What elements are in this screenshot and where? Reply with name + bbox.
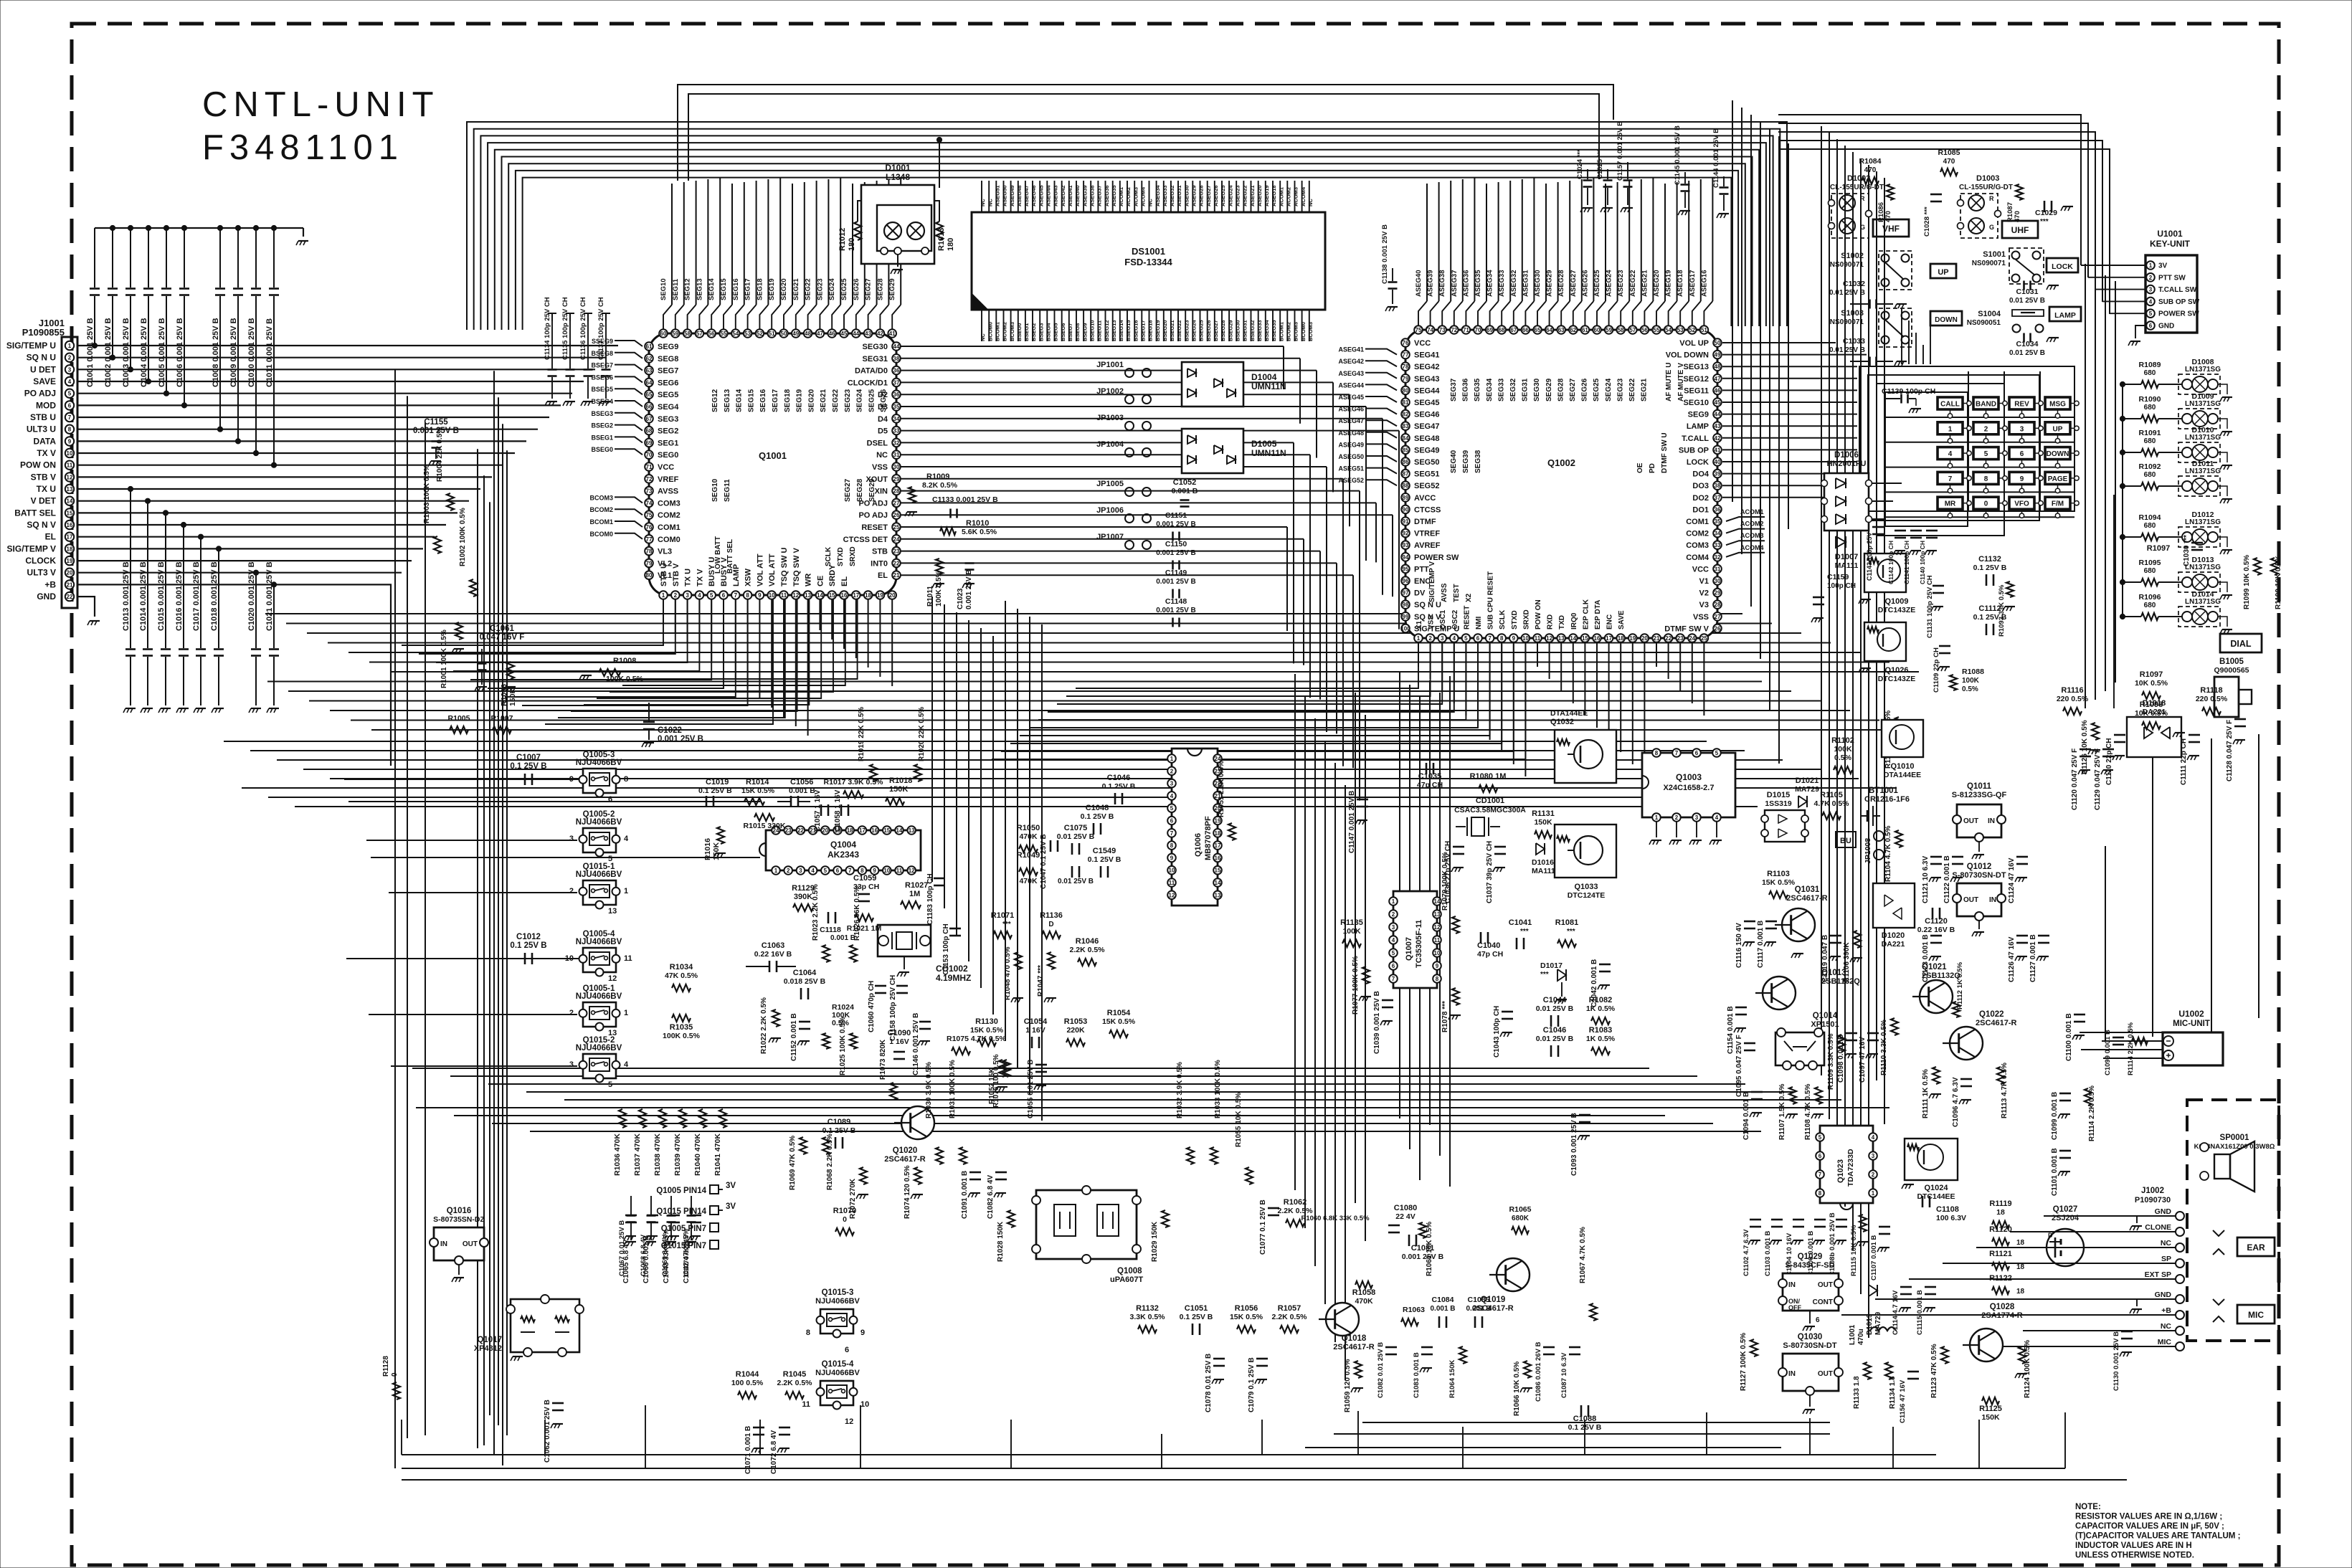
svg-text:BCOM0: BCOM0 bbox=[589, 531, 613, 538]
svg-text:S1004: S1004 bbox=[1978, 310, 2001, 318]
svg-text:1M: 1M bbox=[909, 890, 920, 898]
svg-text:C1069 6.8 4V: C1069 6.8 4V bbox=[661, 1234, 669, 1276]
svg-text:WR: WR bbox=[805, 574, 813, 586]
svg-text:D1006: D1006 bbox=[1834, 451, 1859, 460]
svg-text:C1120 0.047 25V F: C1120 0.047 25V F bbox=[2071, 749, 2079, 810]
capacitor C1106 0.001 B bbox=[1814, 1219, 1826, 1221]
svg-text:28: 28 bbox=[1715, 602, 1721, 608]
Q1002 pin 46 SEG11 bbox=[1713, 386, 1722, 395]
Q1007 pin 9 bbox=[1433, 961, 1441, 970]
svg-text:C1138 0.001 25V B: C1138 0.001 25V B bbox=[1381, 224, 1389, 284]
svg-text:19: 19 bbox=[1215, 818, 1221, 825]
svg-text:Q1009: Q1009 bbox=[1884, 597, 1908, 606]
capacitor C1096 4.7 6.3V bbox=[1960, 1078, 1972, 1080]
svg-text:C1101 0.001 B: C1101 0.001 B bbox=[2051, 1148, 2059, 1196]
svg-text:62: 62 bbox=[646, 356, 653, 362]
wire bbox=[1454, 301, 1463, 326]
svg-text:61: 61 bbox=[646, 343, 653, 350]
svg-text:100K: 100K bbox=[1962, 677, 1980, 685]
capacitor C1010 0.001 25V B bbox=[255, 228, 257, 288]
Q1001 pin 45 bbox=[840, 329, 848, 338]
svg-text:BSEG28: BSEG28 bbox=[1220, 320, 1226, 341]
svg-text:15: 15 bbox=[1215, 868, 1221, 874]
svg-text:NJU4066BV: NJU4066BV bbox=[576, 992, 622, 1001]
svg-text:COM2: COM2 bbox=[1686, 530, 1709, 538]
svg-text:BSEG6: BSEG6 bbox=[1060, 323, 1066, 341]
Q1001 pin XIN bbox=[892, 487, 901, 495]
Q1003 pin 5 bbox=[1712, 749, 1721, 757]
Q1001 pin 42 bbox=[876, 329, 885, 338]
svg-text:R1089: R1089 bbox=[2139, 361, 2161, 369]
svg-text:PAGE: PAGE bbox=[2048, 475, 2068, 483]
svg-text:C1149: C1149 bbox=[1165, 569, 1187, 577]
svg-text:79: 79 bbox=[1403, 376, 1409, 382]
svg-text:BSEG10: BSEG10 bbox=[1089, 320, 1096, 341]
svg-text:R1022 2.2K 0.5%: R1022 2.2K 0.5% bbox=[760, 997, 768, 1054]
svg-text:ACOM1: ACOM1 bbox=[1278, 187, 1284, 206]
caps C1067-C1070 column bbox=[625, 1215, 637, 1217]
svg-text:9: 9 bbox=[758, 592, 762, 599]
capacitor C1107 0.001 B bbox=[1879, 1226, 1890, 1228]
svg-text:C1035: C1035 bbox=[1418, 772, 1441, 781]
svg-text:LN1371SG: LN1371SG bbox=[2185, 518, 2221, 526]
svg-text:ASEG36: ASEG36 bbox=[1462, 270, 1470, 298]
svg-text:ASEG28: ASEG28 bbox=[1557, 270, 1565, 298]
svg-text:C1061: C1061 bbox=[490, 624, 514, 633]
svg-text:C1062 0.001 25V B: C1062 0.001 25V B bbox=[544, 1400, 551, 1463]
svg-text:R1099 10K 0.5%: R1099 10K 0.5% bbox=[2243, 555, 2251, 609]
capacitor C1015 0.001 25V B bbox=[165, 513, 166, 648]
svg-text:1: 1 bbox=[1948, 425, 1953, 433]
svg-text:0.001 25V B: 0.001 25V B bbox=[413, 427, 459, 435]
Q1002 pin 2 bbox=[1426, 634, 1435, 642]
svg-text:R1067 4.7K 0.5%: R1067 4.7K 0.5% bbox=[1579, 1227, 1587, 1283]
wire bbox=[1692, 301, 1701, 326]
svg-text:TSQ SW V: TSQ SW V bbox=[792, 548, 801, 586]
svg-text:C1148: C1148 bbox=[1165, 597, 1187, 606]
Q1006 pin 21 bbox=[1213, 792, 1222, 800]
svg-text:36: 36 bbox=[893, 391, 900, 398]
svg-text:AF MUTE U: AF MUTE U bbox=[1665, 363, 1673, 401]
U1001 pin 5 POWER SW bbox=[2146, 309, 2155, 318]
svg-text:STB V: STB V bbox=[31, 472, 56, 482]
svg-text:C1085: C1085 bbox=[1468, 1296, 1490, 1304]
svg-text:S-80735SN-DZ: S-80735SN-DZ bbox=[433, 1215, 485, 1224]
Q1023 pin 2 bbox=[1869, 1170, 1877, 1179]
svg-text:LN1371SG: LN1371SG bbox=[2185, 467, 2221, 475]
Q1007 pin 11 bbox=[1433, 936, 1441, 944]
J1001 pin 6 MOD bbox=[65, 401, 74, 409]
svg-text:SEG9: SEG9 bbox=[1688, 411, 1709, 419]
svg-text:150K: 150K bbox=[712, 842, 721, 860]
svg-text:COM1: COM1 bbox=[1686, 518, 1709, 526]
svg-text:8: 8 bbox=[806, 1329, 810, 1337]
svg-text:2: 2 bbox=[1872, 1172, 1875, 1178]
Q1002 pin 3 bbox=[1438, 634, 1446, 642]
svg-text:SCLK: SCLK bbox=[825, 546, 833, 566]
svg-text:15K 0.5%: 15K 0.5% bbox=[1102, 1017, 1136, 1026]
svg-text:15: 15 bbox=[67, 510, 73, 516]
svg-text:ASEG27: ASEG27 bbox=[1205, 185, 1212, 206]
resistor R1008 100K 0.5% bbox=[599, 669, 620, 676]
svg-text:20: 20 bbox=[1641, 635, 1648, 642]
svg-text:150K: 150K bbox=[1534, 818, 1552, 827]
svg-text:ASEG29: ASEG29 bbox=[1191, 185, 1198, 206]
Q1002 pin 50 VOL UP bbox=[1713, 338, 1722, 347]
svg-text:ASEG51: ASEG51 bbox=[1338, 465, 1364, 472]
svg-text:VSS: VSS bbox=[1428, 615, 1436, 629]
Q1002 pin 40 LOCK bbox=[1713, 457, 1722, 466]
svg-text:C1159: C1159 bbox=[1827, 573, 1849, 581]
svg-text:BCOM1: BCOM1 bbox=[589, 518, 613, 526]
resistor R1067 4.7K 0.5% bbox=[1590, 1303, 1597, 1321]
Q1001 pin 57 bbox=[696, 329, 704, 338]
svg-text:0.5%: 0.5% bbox=[1962, 685, 1978, 693]
svg-text:R1078 ***: R1078 *** bbox=[1441, 1001, 1449, 1032]
svg-text:R1077 100K 0.5%: R1077 100K 0.5% bbox=[1352, 956, 1360, 1015]
capacitor C1128 0.047 25V F bbox=[2234, 718, 2246, 721]
wire bbox=[77, 429, 538, 430]
wire bbox=[808, 305, 817, 329]
svg-text:SEG37: SEG37 bbox=[1450, 378, 1458, 401]
svg-text:SEG23: SEG23 bbox=[844, 389, 852, 412]
Q1001 pin 62 SEG8 bbox=[645, 354, 653, 363]
svg-text:R1039 470K: R1039 470K bbox=[673, 1134, 682, 1176]
svg-text:1: 1 bbox=[1417, 635, 1421, 642]
svg-text:44: 44 bbox=[853, 331, 859, 337]
svg-text:Q1006: Q1006 bbox=[1194, 833, 1203, 857]
capacitor C1001 0.001 25V B bbox=[94, 228, 95, 288]
Q1002 pin 21 bbox=[1652, 634, 1661, 642]
wire top-right corner bundle bbox=[1778, 115, 2081, 265]
svg-text:BSEG1: BSEG1 bbox=[1023, 323, 1030, 341]
svg-text:5: 5 bbox=[1984, 450, 1988, 458]
svg-text:ASEG31: ASEG31 bbox=[1522, 270, 1530, 297]
svg-text:37: 37 bbox=[1715, 495, 1721, 501]
svg-text:VHF: VHF bbox=[1882, 224, 1900, 234]
svg-text:R1031 100K 0.5%: R1031 100K 0.5% bbox=[949, 1060, 957, 1118]
svg-text:SEG12: SEG12 bbox=[1684, 375, 1709, 384]
svg-text:C1083 0.001 B: C1083 0.001 B bbox=[1413, 1352, 1421, 1398]
svg-text:58: 58 bbox=[1618, 327, 1624, 333]
wire bbox=[1478, 301, 1486, 326]
svg-text:7: 7 bbox=[1818, 1172, 1822, 1178]
svg-text:Q1015-4: Q1015-4 bbox=[822, 1360, 854, 1369]
capacitor C1154 0.001 B bbox=[1735, 1007, 1747, 1009]
svg-text:R1048 470 0.5%: R1048 470 0.5% bbox=[1004, 946, 1012, 1000]
svg-text:76: 76 bbox=[1403, 340, 1409, 346]
Q1003 pin 7 bbox=[1672, 749, 1681, 757]
Q1001 pin 58 bbox=[683, 329, 692, 338]
svg-text:3: 3 bbox=[2020, 425, 2024, 433]
capacitor C1136 100p 25V CH bbox=[587, 313, 589, 321]
Q1006 pin 24 bbox=[1213, 754, 1222, 763]
svg-text:RXD: RXD bbox=[1547, 614, 1555, 629]
Q1001 pin 60 bbox=[659, 329, 668, 338]
resistor R1041 470K bbox=[719, 1109, 726, 1128]
svg-text:C1102 4.7 6.3V: C1102 4.7 6.3V bbox=[1742, 1229, 1750, 1276]
capacitor C1025 bbox=[1607, 169, 1608, 179]
svg-text:***: *** bbox=[1567, 928, 1575, 936]
svg-text:DTC124TE: DTC124TE bbox=[1568, 891, 1606, 900]
svg-text:0.01 25V B: 0.01 25V B bbox=[1057, 832, 1095, 841]
svg-text:R1051 2.2K 0.5%: R1051 2.2K 0.5% bbox=[1218, 761, 1225, 817]
svg-text:ASEG26: ASEG26 bbox=[1213, 185, 1219, 206]
capacitor C1047 0.1 25V B bbox=[1050, 840, 1052, 852]
svg-text:UP: UP bbox=[2053, 425, 2063, 433]
svg-text:R1115 10K 0.5%: R1115 10K 0.5% bbox=[1850, 1225, 1858, 1276]
Q1004 pin 15 bbox=[883, 826, 891, 835]
transistor Q1009 DTC143ZE bbox=[1864, 553, 1906, 592]
Q1002 pin 17 bbox=[1605, 634, 1613, 642]
svg-text:DTMF: DTMF bbox=[1414, 518, 1436, 526]
svg-text:R1097: R1097 bbox=[2140, 670, 2163, 679]
svg-text:NS090051: NS090051 bbox=[1967, 319, 2001, 327]
svg-text:C1130 0.001 25V B: C1130 0.001 25V B bbox=[2112, 1331, 2120, 1391]
svg-text:C1015 0.001 25V B: C1015 0.001 25V B bbox=[157, 561, 166, 631]
svg-text:48: 48 bbox=[805, 331, 811, 337]
svg-text:4: 4 bbox=[811, 868, 815, 874]
capacitor C1082b 0.01 25V B bbox=[1385, 1346, 1397, 1349]
svg-text:31: 31 bbox=[893, 452, 900, 458]
J1001 pin 21 +B bbox=[65, 580, 74, 589]
svg-text:ASEG44: ASEG44 bbox=[1338, 381, 1364, 389]
svg-text:ACOM3: ACOM3 bbox=[1132, 187, 1139, 206]
svg-text:D1005: D1005 bbox=[1251, 439, 1277, 449]
svg-text:SEG11: SEG11 bbox=[724, 479, 731, 502]
svg-text:C1084: C1084 bbox=[1432, 1296, 1454, 1304]
svg-text:C1056: C1056 bbox=[790, 778, 813, 787]
Q1002 pin 68 bbox=[1497, 326, 1506, 334]
J1001 pin 17 EL bbox=[65, 533, 74, 541]
svg-text:1: 1 bbox=[2149, 262, 2153, 269]
svg-text:SEG27: SEG27 bbox=[865, 278, 873, 300]
resistor R1068 2.2K 0.5% bbox=[822, 1137, 830, 1154]
Q1002 pin 71 bbox=[1462, 326, 1471, 334]
svg-text:(T)CAPACITOR VALUES ARE TANTAL: (T)CAPACITOR VALUES ARE TANTALUM ; bbox=[2075, 1532, 2240, 1541]
svg-text:SEG16: SEG16 bbox=[732, 278, 740, 300]
Q1004 pin 19 bbox=[833, 826, 842, 835]
svg-text:SQ N U: SQ N U bbox=[27, 353, 56, 363]
svg-text:6: 6 bbox=[845, 1346, 849, 1354]
svg-text:LOCK: LOCK bbox=[1687, 458, 1709, 467]
svg-text:BSEG30: BSEG30 bbox=[1235, 320, 1241, 341]
svg-text:2SC4617-R: 2SC4617-R bbox=[1976, 1019, 2017, 1027]
svg-text:25: 25 bbox=[1701, 635, 1707, 642]
svg-text:12: 12 bbox=[1434, 924, 1441, 931]
svg-text:D5: D5 bbox=[878, 427, 888, 436]
svg-text:SEG28: SEG28 bbox=[856, 478, 864, 502]
Q1002 pin 48 SEG13 bbox=[1713, 362, 1722, 371]
svg-text:17: 17 bbox=[853, 592, 859, 599]
svg-text:19: 19 bbox=[877, 592, 883, 599]
svg-text:C1127 0.001 B: C1127 0.001 B bbox=[2029, 934, 2037, 982]
svg-text:BSEG20: BSEG20 bbox=[1162, 320, 1168, 341]
svg-text:7: 7 bbox=[1675, 750, 1679, 756]
svg-text:SEG31: SEG31 bbox=[1522, 378, 1530, 401]
svg-text:6: 6 bbox=[1816, 1316, 1820, 1324]
svg-text:C1052: C1052 bbox=[1173, 478, 1196, 487]
Q1007 pin 8 bbox=[1433, 974, 1441, 983]
svg-text:ASEG41: ASEG41 bbox=[1067, 185, 1073, 206]
svg-text:SEG1: SEG1 bbox=[658, 439, 678, 447]
svg-text:R1004 22K 0.5%: R1004 22K 0.5% bbox=[436, 427, 444, 482]
Q1002 pin 28 V3 bbox=[1713, 600, 1722, 609]
svg-text:D: D bbox=[1048, 921, 1053, 928]
svg-text:S1003: S1003 bbox=[1841, 309, 1864, 318]
wire bbox=[688, 305, 696, 329]
svg-text:BT1001: BT1001 bbox=[1869, 787, 1899, 795]
wire bbox=[1656, 301, 1665, 326]
Q1003 pin 4 bbox=[1712, 813, 1721, 822]
svg-text:Q1013: Q1013 bbox=[1821, 969, 1846, 977]
wire bbox=[724, 305, 732, 329]
Q1001 pin 55 bbox=[719, 329, 728, 338]
svg-text:ACOM1: ACOM1 bbox=[1118, 187, 1124, 206]
svg-text:2.2K 0.5%: 2.2K 0.5% bbox=[1069, 946, 1105, 954]
capacitor C1086 0.001 25V B bbox=[1543, 1346, 1555, 1349]
svg-text:1: 1 bbox=[68, 343, 72, 349]
svg-text:18: 18 bbox=[67, 546, 73, 552]
svg-text:COM1: COM1 bbox=[658, 523, 681, 532]
svg-text:BSEG16: BSEG16 bbox=[1132, 320, 1139, 341]
J1001 pin 4 SAVE bbox=[65, 377, 74, 386]
svg-text:1: 1 bbox=[624, 1009, 628, 1017]
resistor R1031 100K 0.5% bbox=[959, 1147, 967, 1164]
capacitor C1006 0.001 25V B bbox=[184, 228, 185, 288]
wire Q1001 top risers bbox=[671, 184, 673, 305]
svg-text:RESISTOR VALUES ARE IN Ω,1/: RESISTOR VALUES ARE IN Ω,1/16W ; bbox=[2075, 1513, 2222, 1521]
J1001 pin 1 SIG/TEMP U bbox=[65, 341, 74, 350]
Q1002 pin 63 bbox=[1557, 326, 1565, 334]
Q1003 pin 1 bbox=[1652, 813, 1661, 822]
Q1002 pin 34 COM2 bbox=[1713, 529, 1722, 538]
svg-text:3V: 3V bbox=[726, 1182, 736, 1190]
svg-text:0.1 25V B: 0.1 25V B bbox=[1973, 613, 2007, 622]
svg-text:SEG34: SEG34 bbox=[1486, 378, 1494, 401]
Q1001 pin 69 SEG1 bbox=[645, 439, 653, 447]
Q1002 pin 5 bbox=[1462, 634, 1471, 642]
key button DOWN bbox=[2045, 447, 2070, 460]
Q1001 pin 41 bbox=[888, 329, 896, 338]
svg-text:Q1010: Q1010 bbox=[1890, 762, 1914, 771]
svg-text:R1016: R1016 bbox=[703, 838, 712, 860]
Q1004 pin 1 bbox=[772, 866, 780, 875]
svg-text:VCC: VCC bbox=[1692, 565, 1709, 574]
svg-text:C1033: C1033 bbox=[1843, 337, 1865, 346]
svg-text:680: 680 bbox=[2144, 602, 2156, 609]
Q1004 pin 24 bbox=[772, 826, 780, 835]
Q1002 pin 49 VOL DOWN bbox=[1713, 351, 1722, 359]
svg-text:ULT3 V: ULT3 V bbox=[27, 568, 56, 578]
Q1001 pin 76 COM1 bbox=[645, 523, 653, 531]
wire bbox=[1716, 822, 1717, 837]
svg-text:C1071 0.001 B: C1071 0.001 B bbox=[744, 1426, 752, 1474]
svg-text:27: 27 bbox=[1715, 614, 1721, 620]
svg-text:ASEG43: ASEG43 bbox=[1053, 185, 1059, 206]
svg-text:23: 23 bbox=[785, 827, 792, 834]
wire bbox=[1609, 301, 1618, 326]
capacitor R1115 10K 0.5% bbox=[1859, 1215, 1867, 1232]
svg-text:BSEG23: BSEG23 bbox=[1183, 320, 1190, 341]
Q1001 pin 20 bbox=[888, 591, 896, 599]
svg-text:10: 10 bbox=[883, 868, 890, 874]
capacitor C1131 100p 25V CH bbox=[1933, 585, 1944, 587]
svg-text:67: 67 bbox=[646, 416, 653, 422]
svg-text:SEG20: SEG20 bbox=[780, 278, 788, 300]
svg-text:9: 9 bbox=[860, 1329, 865, 1337]
J1001 pin 12 STB V bbox=[65, 472, 74, 481]
svg-text:11: 11 bbox=[1169, 880, 1175, 886]
svg-text:680: 680 bbox=[2144, 522, 2156, 530]
svg-text:2SA1774-R: 2SA1774-R bbox=[1981, 1311, 2023, 1320]
svg-text:LAMP: LAMP bbox=[1687, 422, 1709, 431]
svg-text:SEG40: SEG40 bbox=[1450, 450, 1458, 473]
Q1006 pin 22 bbox=[1213, 779, 1222, 788]
svg-text:78: 78 bbox=[646, 548, 653, 555]
svg-text:BSEG1: BSEG1 bbox=[591, 434, 613, 441]
svg-text:8: 8 bbox=[68, 427, 72, 433]
capacitor C1023 0.001 25V B bbox=[965, 562, 975, 564]
capacitor C1055 0.01 25V B bbox=[1035, 1064, 1047, 1066]
svg-text:SQ N V: SQ N V bbox=[27, 520, 56, 530]
Q1002 pin 95 PTT bbox=[1401, 565, 1410, 574]
svg-text:BSEG8: BSEG8 bbox=[591, 350, 613, 357]
J1001 pin 14 V DET bbox=[65, 497, 74, 505]
svg-text:15K 0.5%: 15K 0.5% bbox=[1230, 1313, 1263, 1321]
Q1002 pin 92 VTREF bbox=[1401, 529, 1410, 538]
svg-text:COM2: COM2 bbox=[658, 511, 681, 520]
resistor R1073 820K bbox=[890, 1083, 897, 1100]
capacitor C1009 0.001 25V B bbox=[237, 228, 239, 288]
svg-text:PTT SW: PTT SW bbox=[2158, 274, 2186, 282]
svg-text:C1013 0.001 25V B: C1013 0.001 25V B bbox=[122, 561, 131, 631]
svg-text:0.01 25V B: 0.01 25V B bbox=[1536, 1004, 1574, 1013]
jumper JP1002 bbox=[1125, 395, 1134, 404]
svg-text:C1095 0.047 25V F: C1095 0.047 25V F bbox=[1735, 1035, 1743, 1097]
svg-text:R: R bbox=[1860, 195, 1865, 202]
Q1002 pin 83 SEG47 bbox=[1401, 422, 1410, 430]
display DS1001 FSD-13344 bbox=[972, 212, 1325, 310]
resistor R1004 22K 0.5% bbox=[447, 493, 454, 510]
svg-text:CALL: CALL bbox=[1940, 401, 1960, 409]
capacitor C1114 4.7 16V bbox=[1900, 1286, 1912, 1288]
Q1001 pin 51 bbox=[767, 329, 776, 338]
resistor R1079 100K 0.5% bbox=[1452, 916, 1459, 933]
svg-text:R1104 4.7K 0.5%: R1104 4.7K 0.5% bbox=[1884, 826, 1892, 882]
svg-text:ASEG39: ASEG39 bbox=[1081, 185, 1088, 206]
wire bbox=[1431, 301, 1439, 326]
svg-text:C1009 0.001 25V B: C1009 0.001 25V B bbox=[229, 318, 238, 387]
svg-text:BSEG22: BSEG22 bbox=[1176, 320, 1182, 341]
svg-text:B1005: B1005 bbox=[2219, 657, 2244, 666]
svg-text:D1016: D1016 bbox=[1532, 858, 1554, 867]
Q1001 pin 1 bbox=[659, 591, 668, 599]
svg-text:0.001 25V B: 0.001 25V B bbox=[1156, 578, 1196, 586]
svg-text:2SC4617-R: 2SC4617-R bbox=[884, 1155, 926, 1164]
svg-text:2: 2 bbox=[1170, 768, 1174, 774]
svg-text:11: 11 bbox=[896, 868, 903, 874]
svg-text:***: *** bbox=[1540, 971, 1549, 979]
Q1023 pin 6 bbox=[1816, 1151, 1824, 1160]
Q1006 pin 4 bbox=[1167, 792, 1176, 800]
svg-text:6: 6 bbox=[2020, 450, 2024, 458]
svg-text:11: 11 bbox=[802, 1400, 810, 1409]
Q1001 pin 4 bbox=[696, 591, 704, 599]
capacitor C1138 0.001 25V B bbox=[1392, 268, 1393, 281]
wire bbox=[77, 440, 526, 442]
Q1007 pin 7 bbox=[1389, 974, 1398, 983]
